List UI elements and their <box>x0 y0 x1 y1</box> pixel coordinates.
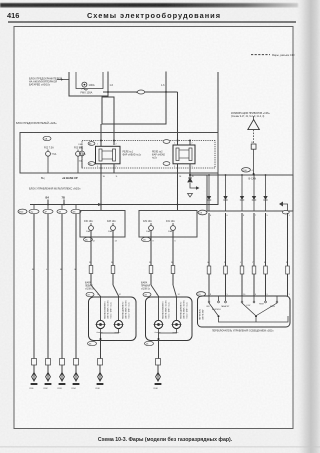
oval under lamp box B <box>145 341 154 345</box>
four left wires down <box>34 214 76 359</box>
battery fuse box bracket <box>69 72 108 96</box>
relay 1 bottom pins <box>100 164 102 211</box>
switch internal bus <box>219 316 289 322</box>
oval near relay2 top <box>163 140 170 144</box>
diode off relay2 output <box>188 178 200 197</box>
fuse F31 <box>166 220 175 233</box>
pin labels under CAN box <box>210 215 291 217</box>
relay 2 bottom pins <box>177 164 179 211</box>
headlamp left box <box>89 297 137 341</box>
lamp A2 high beam <box>114 297 124 334</box>
lamp pin numbers <box>98 294 181 296</box>
stub above junction x108 <box>107 72 109 93</box>
fuse F30 <box>84 220 93 233</box>
wire code marks <box>32 269 76 271</box>
switch feed wires <box>209 213 288 296</box>
wire from label to battery fuse box <box>57 79 69 81</box>
main B+ wire <box>103 91 178 93</box>
long vertical feed to instrument cluster rail <box>217 72 219 205</box>
middle fuse box right <box>139 211 197 238</box>
lamp box B internal bus <box>159 329 177 333</box>
lamp box A internal bus <box>101 329 119 333</box>
mid box pin labels <box>93 241 177 243</box>
multiplex rail <box>30 204 218 206</box>
connector oval B6 <box>88 142 95 146</box>
ovals under middle fuse boxes <box>84 237 93 241</box>
headlamp right box <box>146 297 193 341</box>
connector oval B5 <box>88 162 95 166</box>
comb teeth down to connector ovals <box>33 205 35 210</box>
routing rectangle wire to relay 1 <box>102 92 166 145</box>
connector oval A06 left <box>43 136 51 140</box>
fuse F28 <box>107 220 116 233</box>
faint bottom rule <box>0 446 320 449</box>
high-beam indicator triangle <box>248 116 260 144</box>
fuse F02 <box>44 147 57 173</box>
diode D3 <box>240 175 244 211</box>
oval near relay2 bottom <box>163 162 170 166</box>
connector oval on wire <box>137 90 144 94</box>
pin numbers above switch box <box>210 294 291 296</box>
ground 2 <box>44 371 52 390</box>
oval under lamp box A <box>88 341 97 345</box>
designator oval M20 <box>18 209 27 214</box>
ground 1 <box>30 371 38 390</box>
connector ovals row <box>29 209 81 213</box>
oval C06 <box>242 168 251 172</box>
ground wire lamp A <box>100 341 102 360</box>
diagram outer border <box>14 26 293 428</box>
oval on lamp box A <box>86 292 94 296</box>
oval on lamp box B <box>143 292 151 296</box>
ground 4 <box>72 371 80 390</box>
wire from relay2 output to CAN box <box>190 174 207 176</box>
diode D4 <box>252 175 256 211</box>
left wires inline connectors + grounds <box>32 359 79 366</box>
right page-curl shading strip <box>296 0 320 453</box>
switch left mechanism <box>206 296 230 317</box>
switch right mechanism <box>241 296 278 317</box>
ground 3 <box>58 371 66 390</box>
CAN junction box <box>207 175 293 211</box>
diode D1 <box>207 175 211 211</box>
oval 08 on CAN box bottom left <box>198 210 207 215</box>
vertical micro text in lamp box A <box>104 300 131 319</box>
relay 1 HEAD <box>96 140 142 164</box>
stub above junction x166 <box>165 72 167 93</box>
ground wire lamp B <box>158 341 160 360</box>
fuse FMX 100A <box>81 82 95 95</box>
fuse F03 <box>74 147 86 173</box>
lamp B1 low beam <box>154 297 164 334</box>
light switch designator oval <box>197 292 206 297</box>
inline connectors on lamp wires <box>89 266 175 274</box>
fuse F29 <box>143 220 153 233</box>
vertical label in switch box <box>200 308 205 320</box>
dashed relay sub-box <box>82 141 215 169</box>
diode D5 <box>263 175 267 211</box>
middle fuse box left <box>80 211 125 238</box>
branch arrow inside CAN box <box>281 204 288 211</box>
light switch box <box>198 296 291 327</box>
diode D2 <box>223 175 227 211</box>
fuse F05 <box>79 144 85 168</box>
junction dots on CAN bus <box>208 174 266 176</box>
vertical micro text in lamp box B <box>162 300 189 319</box>
ground lamp B <box>154 371 162 390</box>
fuse block A06 box <box>20 133 218 174</box>
relay pin numbers <box>97 143 193 169</box>
pin labels at A06 bottom edge <box>103 176 195 178</box>
header rule <box>8 21 296 22</box>
lamp A1 low beam <box>96 297 106 334</box>
oval at CAN box bottom right <box>282 210 289 214</box>
lamp feed wires <box>91 230 173 285</box>
inline connectors on switch wires <box>207 266 289 274</box>
wire down to relay 2 <box>177 92 179 145</box>
relay 2 HEAD <box>152 140 195 164</box>
top dark page-edge bar <box>0 3 298 7</box>
ground lamp A <box>96 371 104 390</box>
legend: dashed line + label C10 top right <box>251 53 295 57</box>
lamp B2 high beam <box>172 297 182 334</box>
